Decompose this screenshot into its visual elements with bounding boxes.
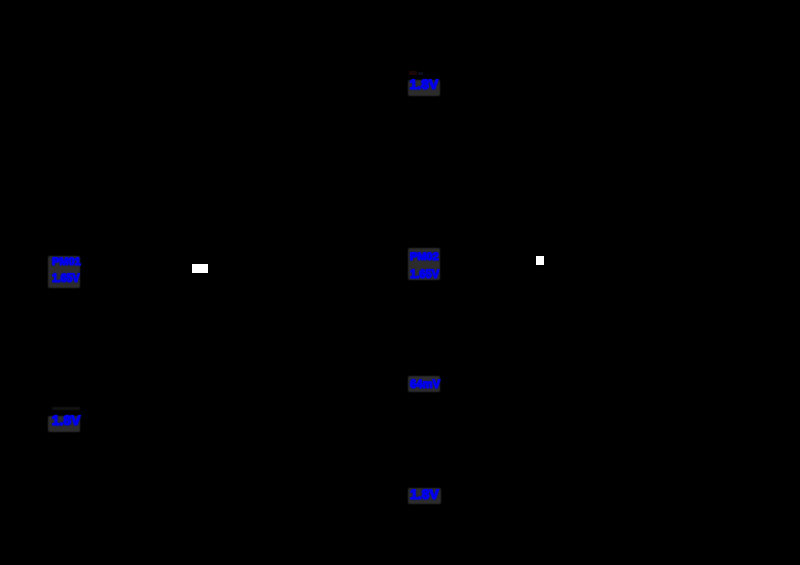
transistor M2 annotation label (408, 248, 440, 280)
probe marker (white) on node IN (192, 264, 208, 273)
node VBIAS voltage annotation (408, 376, 440, 392)
probe marker (white) on node OUT (536, 256, 544, 265)
node VDD faint overlay text (409, 71, 417, 76)
node VREF voltage annotation (48, 416, 80, 432)
component name text above VREF label (faint) (52, 407, 80, 410)
node VSS voltage annotation (408, 488, 441, 504)
transistor M1 annotation label (48, 256, 80, 288)
node VDD voltage annotation (408, 80, 440, 96)
